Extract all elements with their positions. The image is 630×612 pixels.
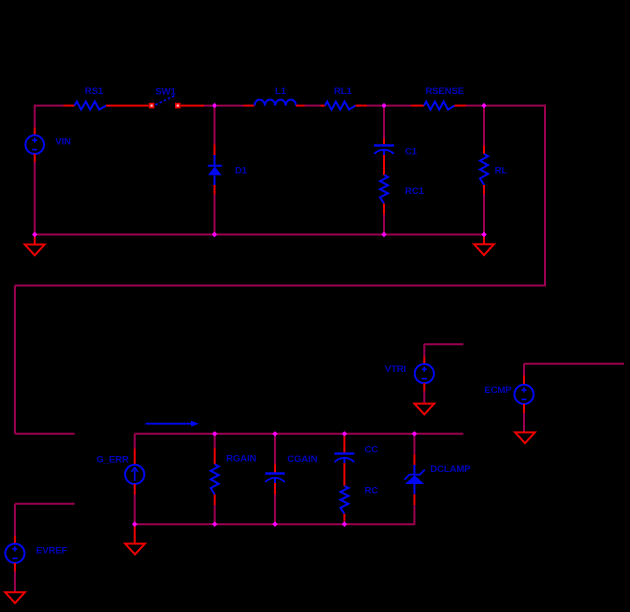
svg-text:DCLAMP: DCLAMP	[430, 464, 471, 475]
svg-text:RSENSE: RSENSE	[425, 86, 464, 97]
svg-text:VTRI: VTRI	[385, 364, 407, 375]
svg-text:D1: D1	[235, 165, 248, 176]
svg-text:G_ERR: G_ERR	[96, 454, 129, 465]
svg-text:VIN: VIN	[55, 137, 71, 148]
svg-text:RL1: RL1	[334, 86, 352, 97]
svg-text:C1: C1	[405, 147, 418, 158]
svg-text:RC: RC	[365, 486, 379, 497]
svg-text:SW1: SW1	[155, 86, 176, 97]
svg-text:L1: L1	[275, 86, 287, 97]
svg-text:RC1: RC1	[405, 186, 425, 197]
svg-text:CGAIN: CGAIN	[287, 454, 317, 465]
svg-text:RGAIN: RGAIN	[226, 453, 256, 464]
svg-text:ECMP: ECMP	[484, 385, 512, 396]
svg-text:RL: RL	[495, 166, 508, 177]
svg-text:RS1: RS1	[85, 86, 104, 97]
svg-text:CC: CC	[365, 445, 379, 456]
svg-text:EVREF: EVREF	[36, 545, 68, 556]
